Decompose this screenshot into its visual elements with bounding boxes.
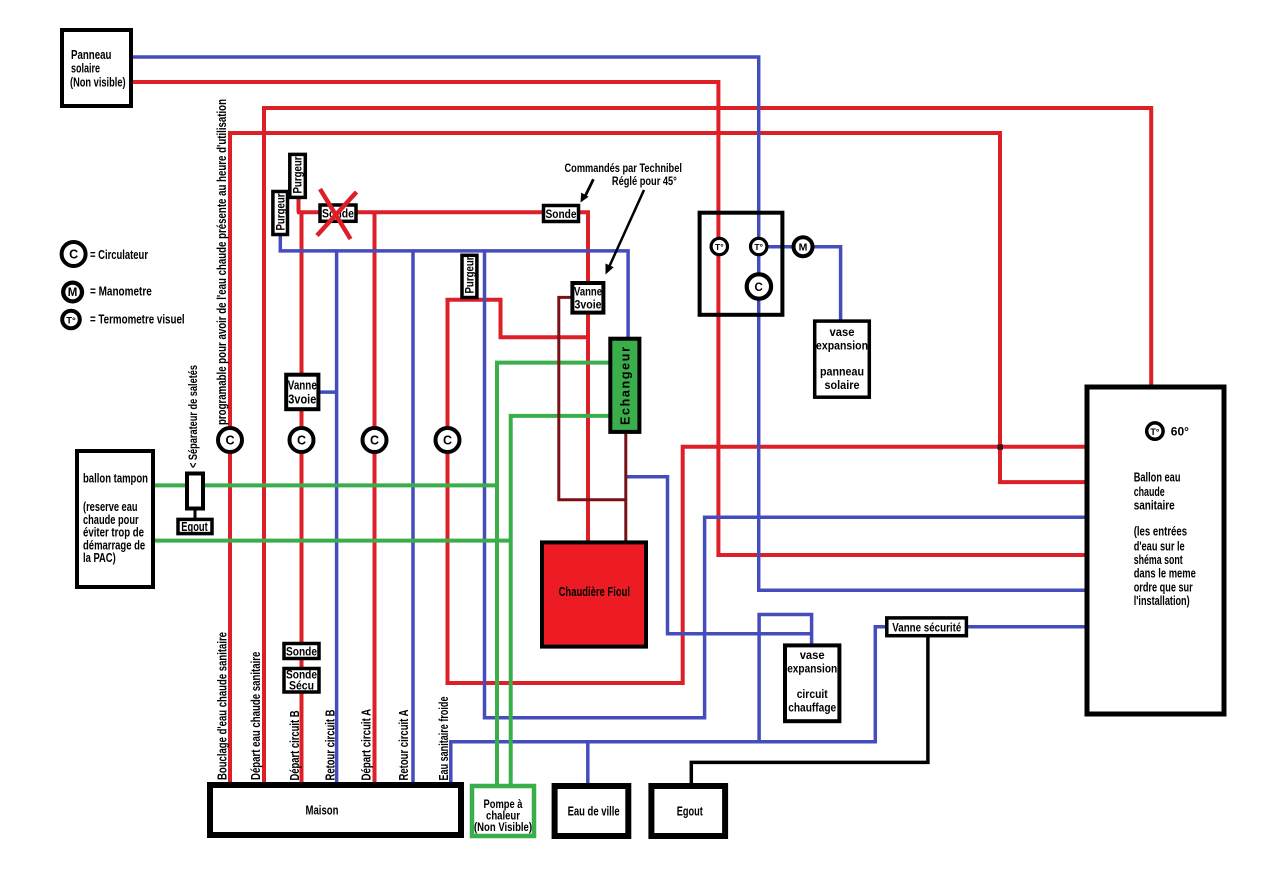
svg-text:Vanne: Vanne bbox=[574, 284, 602, 298]
chaudiere fioul bbox=[542, 542, 646, 646]
svg-text:C: C bbox=[370, 434, 379, 448]
wire red: bouclage eau chaude sanitaire bbox=[230, 133, 1087, 785]
wire blue: retour circuit B bbox=[335, 251, 339, 785]
wire red: depart circuit B bbox=[300, 212, 304, 785]
svg-text:chaleur: chaleur bbox=[486, 811, 520, 823]
svg-text:Réglé pour 45°: Réglé pour 45° bbox=[612, 174, 677, 188]
sonde secu bbox=[284, 669, 319, 693]
sonde droite bbox=[544, 206, 579, 222]
wire blue: vanne securite vers ballon bbox=[966, 625, 1087, 629]
panneau solaire (non visible) bbox=[62, 30, 131, 106]
separateur de saletes bbox=[187, 474, 203, 509]
svg-text:(Non Visible): (Non Visible) bbox=[474, 822, 532, 834]
svg-text:Panneau: Panneau bbox=[71, 47, 111, 62]
svg-text:C: C bbox=[225, 434, 234, 448]
svg-text:panneau: panneau bbox=[820, 365, 864, 379]
wire blue: sortie echangeur vers vase expansion bbox=[626, 477, 812, 634]
svg-text:Egout: Egout bbox=[181, 520, 208, 534]
wire red: depart circuit A bbox=[373, 212, 377, 785]
wire green: montee echangeur A et descente pompe bbox=[497, 363, 610, 786]
svg-text:Départ circuit A: Départ circuit A bbox=[359, 708, 374, 780]
svg-text:(les entrées: (les entrées bbox=[1134, 524, 1187, 539]
svg-text:3voie: 3voie bbox=[575, 298, 602, 312]
svg-text:sanitaire: sanitaire bbox=[1134, 498, 1175, 513]
croix rouge sur sonde bbox=[317, 189, 357, 239]
svg-text:= Circulateur: = Circulateur bbox=[90, 247, 148, 262]
svg-text:Purgeur: Purgeur bbox=[293, 156, 305, 193]
circulateur solaire bbox=[747, 274, 771, 298]
manometre bbox=[794, 237, 813, 256]
svg-text:Purgeur: Purgeur bbox=[464, 256, 476, 293]
wire maroon: vanne 3voie vers chaudiere bbox=[559, 297, 626, 499]
svg-text:T°: T° bbox=[715, 242, 724, 252]
wire blue: thermometre vers manometre et vase solaire bbox=[759, 247, 841, 321]
svg-text:expansion: expansion bbox=[787, 661, 837, 675]
svg-text:Départ eau chaude sanitaire: Départ eau chaude sanitaire bbox=[248, 652, 263, 780]
wire black: vanne securite vers egout bbox=[691, 636, 928, 786]
fleche vers sonde bbox=[581, 179, 594, 202]
wire blue: eau froide vers ballon bbox=[485, 251, 1088, 718]
svg-text:Retour circuit B: Retour circuit B bbox=[323, 710, 338, 781]
svg-text:programable pour avoir de l'ea: programable pour avoir de l'eau chaude p… bbox=[215, 99, 229, 425]
wire green: ballon tampon bas bbox=[153, 539, 511, 543]
svg-text:Départ circuit B: Départ circuit B bbox=[287, 711, 302, 781]
note commandes technibel bbox=[565, 161, 682, 188]
legende circulateur bbox=[62, 242, 148, 266]
echangeur bbox=[610, 339, 639, 432]
svg-text:M: M bbox=[68, 287, 78, 299]
svg-text:Sécu: Sécu bbox=[289, 680, 314, 692]
svg-text:M: M bbox=[799, 242, 808, 254]
wire blue: vase expansion chauffage liaison bbox=[759, 615, 812, 742]
svg-text:Maison: Maison bbox=[306, 803, 339, 818]
wire green: montee echangeur B et descente pompe bbox=[511, 416, 611, 786]
purgeur P2 bbox=[290, 154, 306, 197]
svg-text:T°: T° bbox=[1150, 427, 1159, 437]
vanne 3voie gauche bbox=[286, 375, 318, 410]
svg-text:Egout: Egout bbox=[677, 804, 704, 818]
sonde bas bbox=[284, 644, 319, 659]
vanne securite bbox=[887, 618, 967, 636]
wire black: separateur vers egout bbox=[194, 509, 197, 520]
svg-text:Retour circuit A: Retour circuit A bbox=[396, 709, 411, 780]
svg-text:solaire: solaire bbox=[71, 61, 100, 76]
svg-text:(Non visible): (Non visible) bbox=[70, 75, 126, 90]
svg-text:Commandés par Technibel: Commandés par Technibel bbox=[565, 161, 682, 175]
wire maroon: echangeur vers chaudiere bbox=[624, 433, 627, 542]
svg-text:circuit: circuit bbox=[797, 687, 828, 701]
svg-text:vase: vase bbox=[800, 648, 825, 662]
svg-text:Ballon eau: Ballon eau bbox=[1134, 470, 1181, 485]
svg-text:l'installation): l'installation) bbox=[1134, 593, 1190, 608]
svg-text:la PAC): la PAC) bbox=[83, 550, 116, 565]
thermometre T1 bbox=[711, 238, 727, 254]
svg-text:60°: 60° bbox=[1171, 424, 1189, 438]
svg-text:d'eau sur le: d'eau sur le bbox=[1134, 538, 1185, 553]
wire blue: collecteur retour vers echangeur bbox=[280, 235, 628, 339]
svg-text:C: C bbox=[755, 282, 763, 294]
wire red: ballon milieu vers chaudiere bbox=[448, 300, 1088, 683]
ballon tampon bbox=[77, 451, 153, 587]
sonde barree bbox=[320, 205, 356, 221]
thermometre T2 bbox=[751, 238, 767, 254]
svg-text:Vanne sécurité: Vanne sécurité bbox=[892, 621, 961, 635]
purgeur P1 bbox=[273, 192, 288, 235]
circulateur C3 bbox=[363, 428, 387, 452]
wire blue: stub vanne 3voie gauche bbox=[318, 390, 336, 394]
svg-text:Sonde: Sonde bbox=[286, 644, 317, 658]
maison bbox=[210, 785, 461, 835]
wire red: stub purgeur 2 bbox=[297, 197, 301, 212]
circulateur C2 bbox=[290, 428, 314, 452]
circulateur C4 bbox=[436, 428, 460, 452]
egout gauche bbox=[178, 519, 212, 534]
svg-text:Eau de ville: Eau de ville bbox=[568, 804, 620, 818]
node junction rouge bbox=[998, 444, 1004, 450]
svg-text:C: C bbox=[443, 434, 452, 448]
vase expansion panneau solaire bbox=[815, 321, 870, 397]
purgeur P3 bbox=[462, 255, 477, 297]
pompe a chaleur (non visible) bbox=[472, 786, 534, 836]
fleche vers vanne 3voie bbox=[606, 190, 645, 275]
legende manometre bbox=[63, 283, 152, 302]
svg-text:ballon tampon: ballon tampon bbox=[83, 471, 148, 486]
boitier thermometres circulateur solaire bbox=[700, 213, 783, 315]
wire blue: panneau solaire retour bbox=[131, 57, 1087, 590]
svg-text:C: C bbox=[69, 248, 78, 262]
vanne 3voie milieu bbox=[572, 283, 603, 313]
svg-text:= Manometre: = Manometre bbox=[90, 284, 152, 299]
svg-text:vase: vase bbox=[830, 325, 855, 339]
svg-text:< Séparateur de saletés: < Séparateur de saletés bbox=[186, 365, 200, 468]
wire red: depart eau chaude sanitaire bbox=[264, 108, 1151, 785]
wire red: panneau solaire depart bbox=[131, 82, 1087, 555]
wire red: ligne sonde vers vanne 3voie bbox=[297, 212, 588, 542]
svg-text:Purgeur: Purgeur bbox=[275, 193, 287, 230]
svg-text:= Termometre visuel: = Termometre visuel bbox=[90, 312, 185, 327]
svg-text:T°: T° bbox=[66, 316, 76, 327]
svg-text:T°: T° bbox=[754, 242, 763, 252]
svg-text:Sonde: Sonde bbox=[546, 207, 577, 221]
ballon eau chaude sanitaire bbox=[1087, 387, 1224, 714]
circulateur C1 bbox=[218, 428, 242, 452]
wire green: ballon tampon haut vers echangeur bbox=[153, 483, 497, 487]
egout bas bbox=[651, 786, 725, 836]
svg-text:Bouclage d'eau chaude sanitair: Bouclage d'eau chaude sanitaire bbox=[215, 632, 230, 780]
svg-text:Eau sanitaire froide: Eau sanitaire froide bbox=[436, 697, 451, 781]
svg-text:dans le meme: dans le meme bbox=[1134, 566, 1196, 581]
svg-text:C: C bbox=[297, 434, 306, 448]
wire blue: retour circuit A bbox=[411, 251, 415, 785]
svg-text:Pompe à: Pompe à bbox=[484, 799, 523, 811]
svg-text:Chaudière Fioul: Chaudière Fioul bbox=[559, 585, 630, 599]
svg-text:solaire: solaire bbox=[825, 378, 860, 392]
wire blue: descente eau de ville bbox=[586, 742, 590, 786]
svg-text:expansion: expansion bbox=[816, 338, 868, 352]
svg-text:Vanne: Vanne bbox=[288, 379, 317, 393]
legende termometre visuel bbox=[62, 311, 184, 329]
eau de ville bbox=[555, 786, 629, 836]
svg-text:chauffage: chauffage bbox=[788, 700, 836, 714]
svg-text:Echangeur: Echangeur bbox=[619, 347, 633, 425]
svg-text:3voie: 3voie bbox=[288, 392, 316, 406]
vase expansion circuit chauffage bbox=[785, 645, 839, 721]
wire blue: eau sanitaire froide bbox=[451, 627, 887, 785]
